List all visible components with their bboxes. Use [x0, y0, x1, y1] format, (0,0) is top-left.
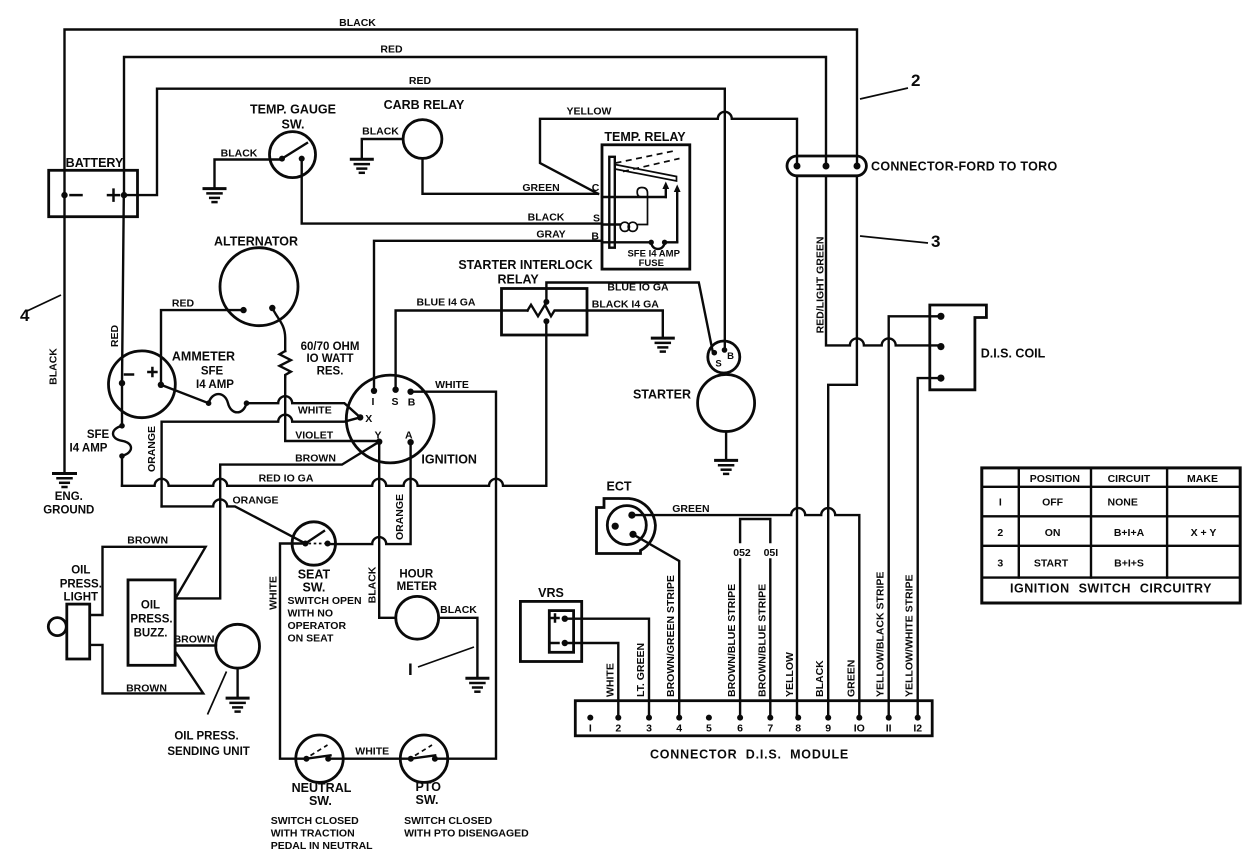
svg-text:BLACK: BLACK — [362, 126, 399, 138]
svg-text:052: 052 — [733, 547, 751, 559]
wire WHITE neutral to PTO — [328, 758, 411, 760]
svg-text:ENG.: ENG. — [55, 491, 83, 503]
ECT pin left — [612, 523, 619, 530]
wire BLACK battery to engine ground — [63, 195, 65, 472]
svg-text:B: B — [408, 397, 416, 409]
wire GREEN carb relay to temp relay C — [423, 158, 599, 193]
svg-text:I2: I2 — [913, 723, 922, 735]
oil press buzzer — [128, 580, 175, 665]
seat switch S3 — [292, 522, 335, 565]
wire VIOLET resistor to ignition Y — [285, 377, 379, 441]
svg-text:IGNITION: IGNITION — [421, 453, 477, 467]
ground sending unit — [227, 698, 248, 712]
svg-text:BLACK: BLACK — [528, 212, 565, 224]
svg-text:IO WATT: IO WATT — [306, 353, 353, 365]
svg-text:BLACK: BLACK — [221, 148, 258, 160]
wire RED alternator to ammeter positive — [161, 310, 244, 384]
svg-text:S: S — [593, 212, 600, 224]
svg-text:RED/LIGHT GREEN: RED/LIGHT GREEN — [815, 237, 827, 334]
DIS coil pin 1 dot — [937, 313, 944, 320]
svg-text:B+I+A: B+I+A — [1114, 527, 1145, 539]
wire YELLOW/BLACK STRIPE coil pin1 to module pin 11 — [889, 316, 941, 717]
svg-text:WHITE: WHITE — [435, 379, 469, 391]
temp relay contact arrow right — [676, 190, 678, 242]
wire BROWN/GREEN STRIPE ECT to module pin 4 — [633, 534, 679, 717]
ground interlock relay — [652, 338, 673, 352]
wire RED/LIGHT GREEN connector to coil pin2 — [826, 176, 941, 345]
wire ORANGE lower branch to ignition X — [162, 415, 361, 507]
ignition terminal A — [407, 439, 413, 445]
svg-text:4: 4 — [20, 306, 30, 325]
svg-text:3: 3 — [646, 723, 652, 735]
wire BROWN buzzer to sending unit — [175, 644, 216, 646]
wire ORANGE X-branch to seat switch — [162, 499, 306, 543]
wire starter to ground — [725, 432, 727, 460]
temp relay coil — [620, 222, 629, 231]
svg-text:YELLOW: YELLOW — [784, 652, 796, 697]
svg-text:METER: METER — [397, 581, 438, 593]
svg-text:WHITE: WHITE — [604, 663, 616, 697]
temp gauge switch contacts — [279, 156, 285, 162]
svg-text:SFE: SFE — [201, 366, 224, 378]
temp relay S line — [602, 223, 620, 225]
svg-text:IGNITION SWITCH CIRCUITRY: IGNITION SWITCH CIRCUITRY — [1010, 582, 1212, 596]
wire alternator to 60/70 ohm resistor — [272, 308, 285, 351]
svg-text:B: B — [727, 351, 734, 362]
svg-text:PEDAL IN NEUTRAL: PEDAL IN NEUTRAL — [271, 840, 373, 852]
svg-text:A: A — [405, 429, 413, 441]
svg-text:CIRCUIT: CIRCUIT — [1108, 473, 1151, 485]
svg-text:OIL: OIL — [141, 600, 160, 612]
svg-text:SWITCH CLOSED: SWITCH CLOSED — [404, 815, 492, 827]
module pin numbers — [589, 723, 922, 735]
battery minus sign — [71, 194, 82, 197]
svg-text:I4 AMP: I4 AMP — [196, 379, 234, 391]
ignition terminal S — [392, 387, 398, 393]
wire BLACK temp gauge switch to ground — [215, 160, 281, 188]
svg-text:7: 7 — [767, 723, 773, 735]
svg-text:ORANGE: ORANGE — [232, 494, 278, 506]
temp relay dashed armature travel lines — [616, 151, 677, 164]
wire sending unit to ground — [236, 668, 238, 697]
svg-text:BROWN: BROWN — [126, 683, 167, 695]
ground starter — [716, 460, 737, 474]
wire BLACK battery-negative to connector (top) — [65, 30, 858, 196]
svg-text:BLUE IO GA: BLUE IO GA — [607, 282, 669, 294]
seat switch dashed contact — [309, 543, 325, 545]
svg-text:VRS: VRS — [538, 586, 564, 600]
svg-text:ON: ON — [1045, 527, 1061, 539]
ground temp gauge switch — [204, 189, 225, 203]
resistor R1 60/70 OHM 10 WATT — [280, 351, 291, 377]
svg-text:GROUND: GROUND — [43, 505, 94, 517]
svg-text:SWITCH OPEN: SWITCH OPEN — [288, 595, 362, 607]
svg-text:WHITE: WHITE — [267, 576, 279, 610]
svg-text:PTO: PTO — [415, 780, 441, 794]
wire BROWN light to buzzer (top) — [90, 547, 206, 615]
svg-text:BROWN/GREEN STRIPE: BROWN/GREEN STRIPE — [665, 575, 677, 697]
svg-text:BLACK: BLACK — [440, 604, 477, 616]
starter solenoid — [708, 341, 740, 373]
svg-text:8: 8 — [795, 723, 801, 735]
svg-text:GRAY: GRAY — [536, 229, 565, 241]
temp relay bimetal strip — [609, 157, 615, 248]
svg-text:NONE: NONE — [1108, 497, 1138, 509]
wire BLACK hour meter to ground — [439, 618, 478, 678]
svg-text:ECT: ECT — [607, 480, 632, 494]
svg-text:STARTER: STARTER — [633, 388, 691, 402]
svg-text:CARB RELAY: CARB RELAY — [384, 98, 465, 112]
svg-text:2: 2 — [615, 723, 621, 735]
wire BROWN/BLUE STRIPE to module pin 7 — [769, 560, 771, 718]
svg-text:3: 3 — [931, 232, 940, 251]
svg-text:RED: RED — [380, 44, 403, 56]
svg-text:BROWN/BLUE STRIPE: BROWN/BLUE STRIPE — [726, 584, 738, 697]
module pin dots — [587, 715, 920, 721]
svg-text:WHITE: WHITE — [298, 404, 332, 416]
table IGNITION SWITCH CIRCUITRY — [982, 468, 1240, 603]
svg-text:OFF: OFF — [1042, 497, 1064, 509]
ECT pin bottom — [629, 531, 636, 538]
svg-text:I: I — [589, 723, 592, 735]
svg-text:SWITCH CLOSED: SWITCH CLOSED — [271, 815, 359, 827]
temp relay heater hook — [637, 188, 647, 203]
svg-text:IO: IO — [854, 723, 865, 735]
neutral switch lever (open position dashed) — [311, 745, 328, 756]
wire WHITE fuse to ignition X — [247, 396, 361, 417]
svg-text:HOUR: HOUR — [399, 569, 434, 581]
DIS coil connector — [930, 305, 987, 390]
connector CONNECTOR-FORD TO TORO — [787, 156, 866, 176]
DIS coil pin 3 dot — [937, 375, 944, 382]
wire BLACK 14 GA interlock relay to ground — [587, 311, 663, 338]
svg-text:ORANGE: ORANGE — [146, 426, 158, 472]
svg-text:II: II — [886, 723, 892, 735]
svg-text:LIGHT: LIGHT — [64, 592, 99, 604]
VRS plus sign — [552, 615, 559, 622]
spark plug bracket 052/051 — [740, 519, 770, 542]
svg-text:5: 5 — [706, 723, 712, 735]
ground carb relay — [351, 159, 372, 173]
VRS minus sign — [552, 642, 559, 645]
battery positive terminal dot — [121, 192, 127, 198]
svg-text:WITH NO: WITH NO — [288, 608, 334, 620]
svg-text:2: 2 — [911, 71, 920, 90]
wire YELLOW connector to temp relay C — [540, 112, 797, 194]
temp gauge switch lever — [282, 143, 307, 159]
ignition switch S2 — [346, 375, 434, 463]
wire BROWN light to buzzer (bottom) — [90, 645, 204, 694]
svg-text:GREEN: GREEN — [522, 182, 559, 194]
wire RED battery-positive to starter solenoid B (third) — [124, 89, 725, 350]
svg-text:CONNECTOR D.I.S. MODULE: CONNECTOR D.I.S. MODULE — [650, 748, 849, 762]
temp relay B line — [602, 241, 651, 243]
svg-text:BLUE I4 GA: BLUE I4 GA — [417, 296, 476, 308]
svg-text:LT. GREEN: LT. GREEN — [635, 643, 647, 697]
PTO switch S5 — [400, 735, 447, 782]
svg-text:4: 4 — [676, 723, 682, 735]
svg-text:BROWN: BROWN — [174, 633, 215, 645]
ammeter positive terminal dot — [158, 382, 164, 388]
svg-text:YELLOW/BLACK STRIPE: YELLOW/BLACK STRIPE — [875, 572, 887, 697]
wire BROWN/BLUE STRIPE to module pin 6 — [739, 560, 741, 718]
fuse F2 SFE 14 AMP (after ammeter) — [161, 385, 247, 413]
svg-text:BLACK: BLACK — [48, 348, 60, 385]
svg-text:ALTERNATOR: ALTERNATOR — [214, 235, 298, 249]
svg-text:SENDING UNIT: SENDING UNIT — [167, 746, 249, 758]
svg-text:3: 3 — [997, 558, 1003, 570]
oil press sending unit — [216, 624, 260, 668]
connector D.I.S. module — [575, 701, 932, 736]
svg-text:YELLOW: YELLOW — [567, 106, 612, 118]
svg-text:OPERATOR: OPERATOR — [288, 620, 347, 632]
interlock relay resistor — [528, 305, 588, 316]
svg-text:START: START — [1034, 558, 1069, 570]
ground ENG GROUND — [54, 474, 76, 488]
fuse F1 SFE 14 AMP (vertical, below ammeter) — [113, 383, 131, 486]
svg-text:CONNECTOR-FORD TO TORO: CONNECTOR-FORD TO TORO — [871, 160, 1057, 174]
svg-text:9: 9 — [825, 723, 831, 735]
temp relay fuse SFE 14 AMP — [649, 240, 654, 245]
ammeter plus sign — [148, 368, 156, 376]
DIS coil pin 2 dot — [937, 343, 944, 350]
PTO switch lever (open position dashed) — [415, 745, 432, 756]
wire YELLOW/WHITE STRIPE coil pin3 to module pin 12 — [918, 378, 941, 717]
svg-text:05I: 05I — [764, 547, 779, 559]
svg-text:X: X — [365, 413, 372, 425]
svg-text:X + Y: X + Y — [1191, 527, 1217, 539]
svg-text:6: 6 — [737, 723, 743, 735]
wire GRAY temp relay B to ignition I — [374, 241, 602, 391]
svg-text:TEMP. RELAY: TEMP. RELAY — [604, 130, 686, 144]
ignition terminal B — [407, 389, 413, 395]
svg-text:GREEN: GREEN — [845, 660, 857, 697]
temp relay armature bar — [615, 165, 677, 182]
svg-text:BLACK: BLACK — [339, 17, 376, 29]
ammeter negative terminal dot — [119, 380, 125, 386]
svg-text:BLACK I4 GA: BLACK I4 GA — [592, 298, 660, 310]
svg-text:BROWN: BROWN — [295, 452, 336, 464]
wire BLACK temp gauge switch to temp relay S — [302, 159, 602, 224]
svg-text:RELAY: RELAY — [497, 273, 539, 287]
svg-text:STARTER INTERLOCK: STARTER INTERLOCK — [458, 258, 593, 272]
battery B1 — [49, 170, 138, 216]
neutral switch S4 — [296, 735, 343, 782]
svg-text:RED: RED — [409, 75, 432, 87]
wire RED battery-positive to connector (second) — [124, 57, 826, 195]
interlock relay contact dots — [543, 299, 549, 305]
wire WHITE seat switch to neutral switch — [280, 544, 306, 759]
svg-text:ON SEAT: ON SEAT — [288, 633, 334, 645]
svg-text:D.I.S. COIL: D.I.S. COIL — [981, 347, 1046, 361]
svg-text:SW.: SW. — [309, 794, 332, 808]
ground hour meter — [467, 678, 488, 692]
module wire labels (vertical) — [604, 572, 915, 697]
battery plus sign — [108, 190, 119, 201]
svg-text:BROWN: BROWN — [127, 534, 168, 546]
wire LT GREEN VRS+ to module pin 3 — [565, 619, 649, 718]
svg-text:POSITION: POSITION — [1030, 473, 1080, 485]
wire BLACK ignition Y to hour meter — [379, 442, 396, 618]
svg-text:BLACK: BLACK — [814, 660, 826, 697]
ammeter minus sign — [125, 373, 133, 376]
ECT pin top — [628, 511, 635, 518]
svg-text:VIOLET: VIOLET — [295, 429, 334, 441]
svg-text:WITH PTO DISENGAGED: WITH PTO DISENGAGED — [404, 828, 529, 840]
svg-text:RED: RED — [172, 297, 195, 309]
svg-text:RED IO GA: RED IO GA — [259, 472, 314, 484]
svg-text:NEUTRAL: NEUTRAL — [292, 781, 352, 795]
svg-text:PRESS.: PRESS. — [60, 579, 102, 591]
leader sending unit — [208, 672, 227, 715]
svg-text:B+I+S: B+I+S — [1114, 558, 1144, 570]
svg-text:Y: Y — [374, 429, 381, 441]
svg-text:I4 AMP: I4 AMP — [70, 443, 108, 455]
wire BLUE 10 GA interlock relay to solenoid S — [546, 283, 712, 351]
svg-text:YELLOW/WHITE STRIPE: YELLOW/WHITE STRIPE — [904, 575, 916, 698]
wire WHITE ignition B to PTO switch — [411, 392, 496, 759]
temp relay contact arrow left — [665, 187, 667, 197]
battery negative terminal dot — [61, 192, 67, 198]
wire RED 10 GA fuse to interlock relay — [122, 321, 546, 486]
svg-text:BROWN/BLUE STRIPE: BROWN/BLUE STRIPE — [756, 584, 768, 697]
svg-text:WHITE: WHITE — [355, 746, 389, 758]
wire BLUE 14 GA ignition S to interlock relay — [396, 311, 528, 390]
svg-text:WITH TRACTION: WITH TRACTION — [271, 828, 355, 840]
svg-text:S: S — [391, 396, 398, 408]
svg-text:SFE: SFE — [87, 429, 110, 441]
temp relay C line — [602, 196, 666, 198]
seat switch lever — [305, 531, 324, 544]
svg-text:ORANGE: ORANGE — [394, 494, 406, 540]
svg-text:PRESS.: PRESS. — [130, 614, 172, 626]
svg-text:60/70 OHM: 60/70 OHM — [301, 341, 360, 353]
svg-text:MAKE: MAKE — [1187, 473, 1218, 485]
svg-text:GREEN: GREEN — [672, 503, 709, 515]
svg-text:RES.: RES. — [317, 365, 344, 377]
svg-text:SW.: SW. — [416, 793, 439, 807]
wire YELLOW connector to module pin 8 — [796, 176, 798, 718]
svg-text:OIL: OIL — [71, 565, 90, 577]
oil press light bulb — [48, 618, 66, 636]
ignition terminal X — [357, 414, 363, 420]
wire BLACK carb relay to ground — [362, 139, 403, 159]
ignition terminal Y — [376, 439, 382, 445]
svg-text:I: I — [408, 660, 413, 679]
wire BLACK connector to module pin 9 — [828, 176, 857, 718]
svg-text:I: I — [372, 396, 375, 408]
svg-text:FUSE: FUSE — [639, 258, 664, 269]
wire ORANGE ignition A to seat switch — [328, 442, 411, 544]
wire battery positive to ammeter negative (RED vertical) — [122, 195, 124, 383]
svg-text:SW.: SW. — [302, 581, 325, 595]
svg-text:BUZZ.: BUZZ. — [134, 628, 168, 640]
svg-text:I: I — [999, 497, 1002, 509]
wire BROWN ignition Y to oil press buzzer — [176, 442, 379, 599]
svg-text:BLACK: BLACK — [366, 566, 378, 603]
svg-text:BATTERY: BATTERY — [66, 156, 124, 170]
ignition terminal I — [371, 388, 377, 394]
svg-text:S: S — [715, 359, 721, 370]
svg-text:RED: RED — [109, 324, 121, 347]
svg-text:AMMETER: AMMETER — [172, 350, 235, 364]
svg-text:OIL PRESS.: OIL PRESS. — [174, 731, 238, 743]
svg-text:TEMP. GAUGE: TEMP. GAUGE — [250, 103, 336, 117]
wire WHITE VRS- to module pin 2 — [565, 643, 619, 718]
wire GREEN ECT to module pin 10 — [632, 508, 859, 717]
svg-text:SW.: SW. — [282, 118, 305, 132]
svg-text:SEAT: SEAT — [298, 568, 331, 582]
svg-text:C: C — [592, 182, 600, 194]
svg-text:2: 2 — [997, 527, 1003, 539]
